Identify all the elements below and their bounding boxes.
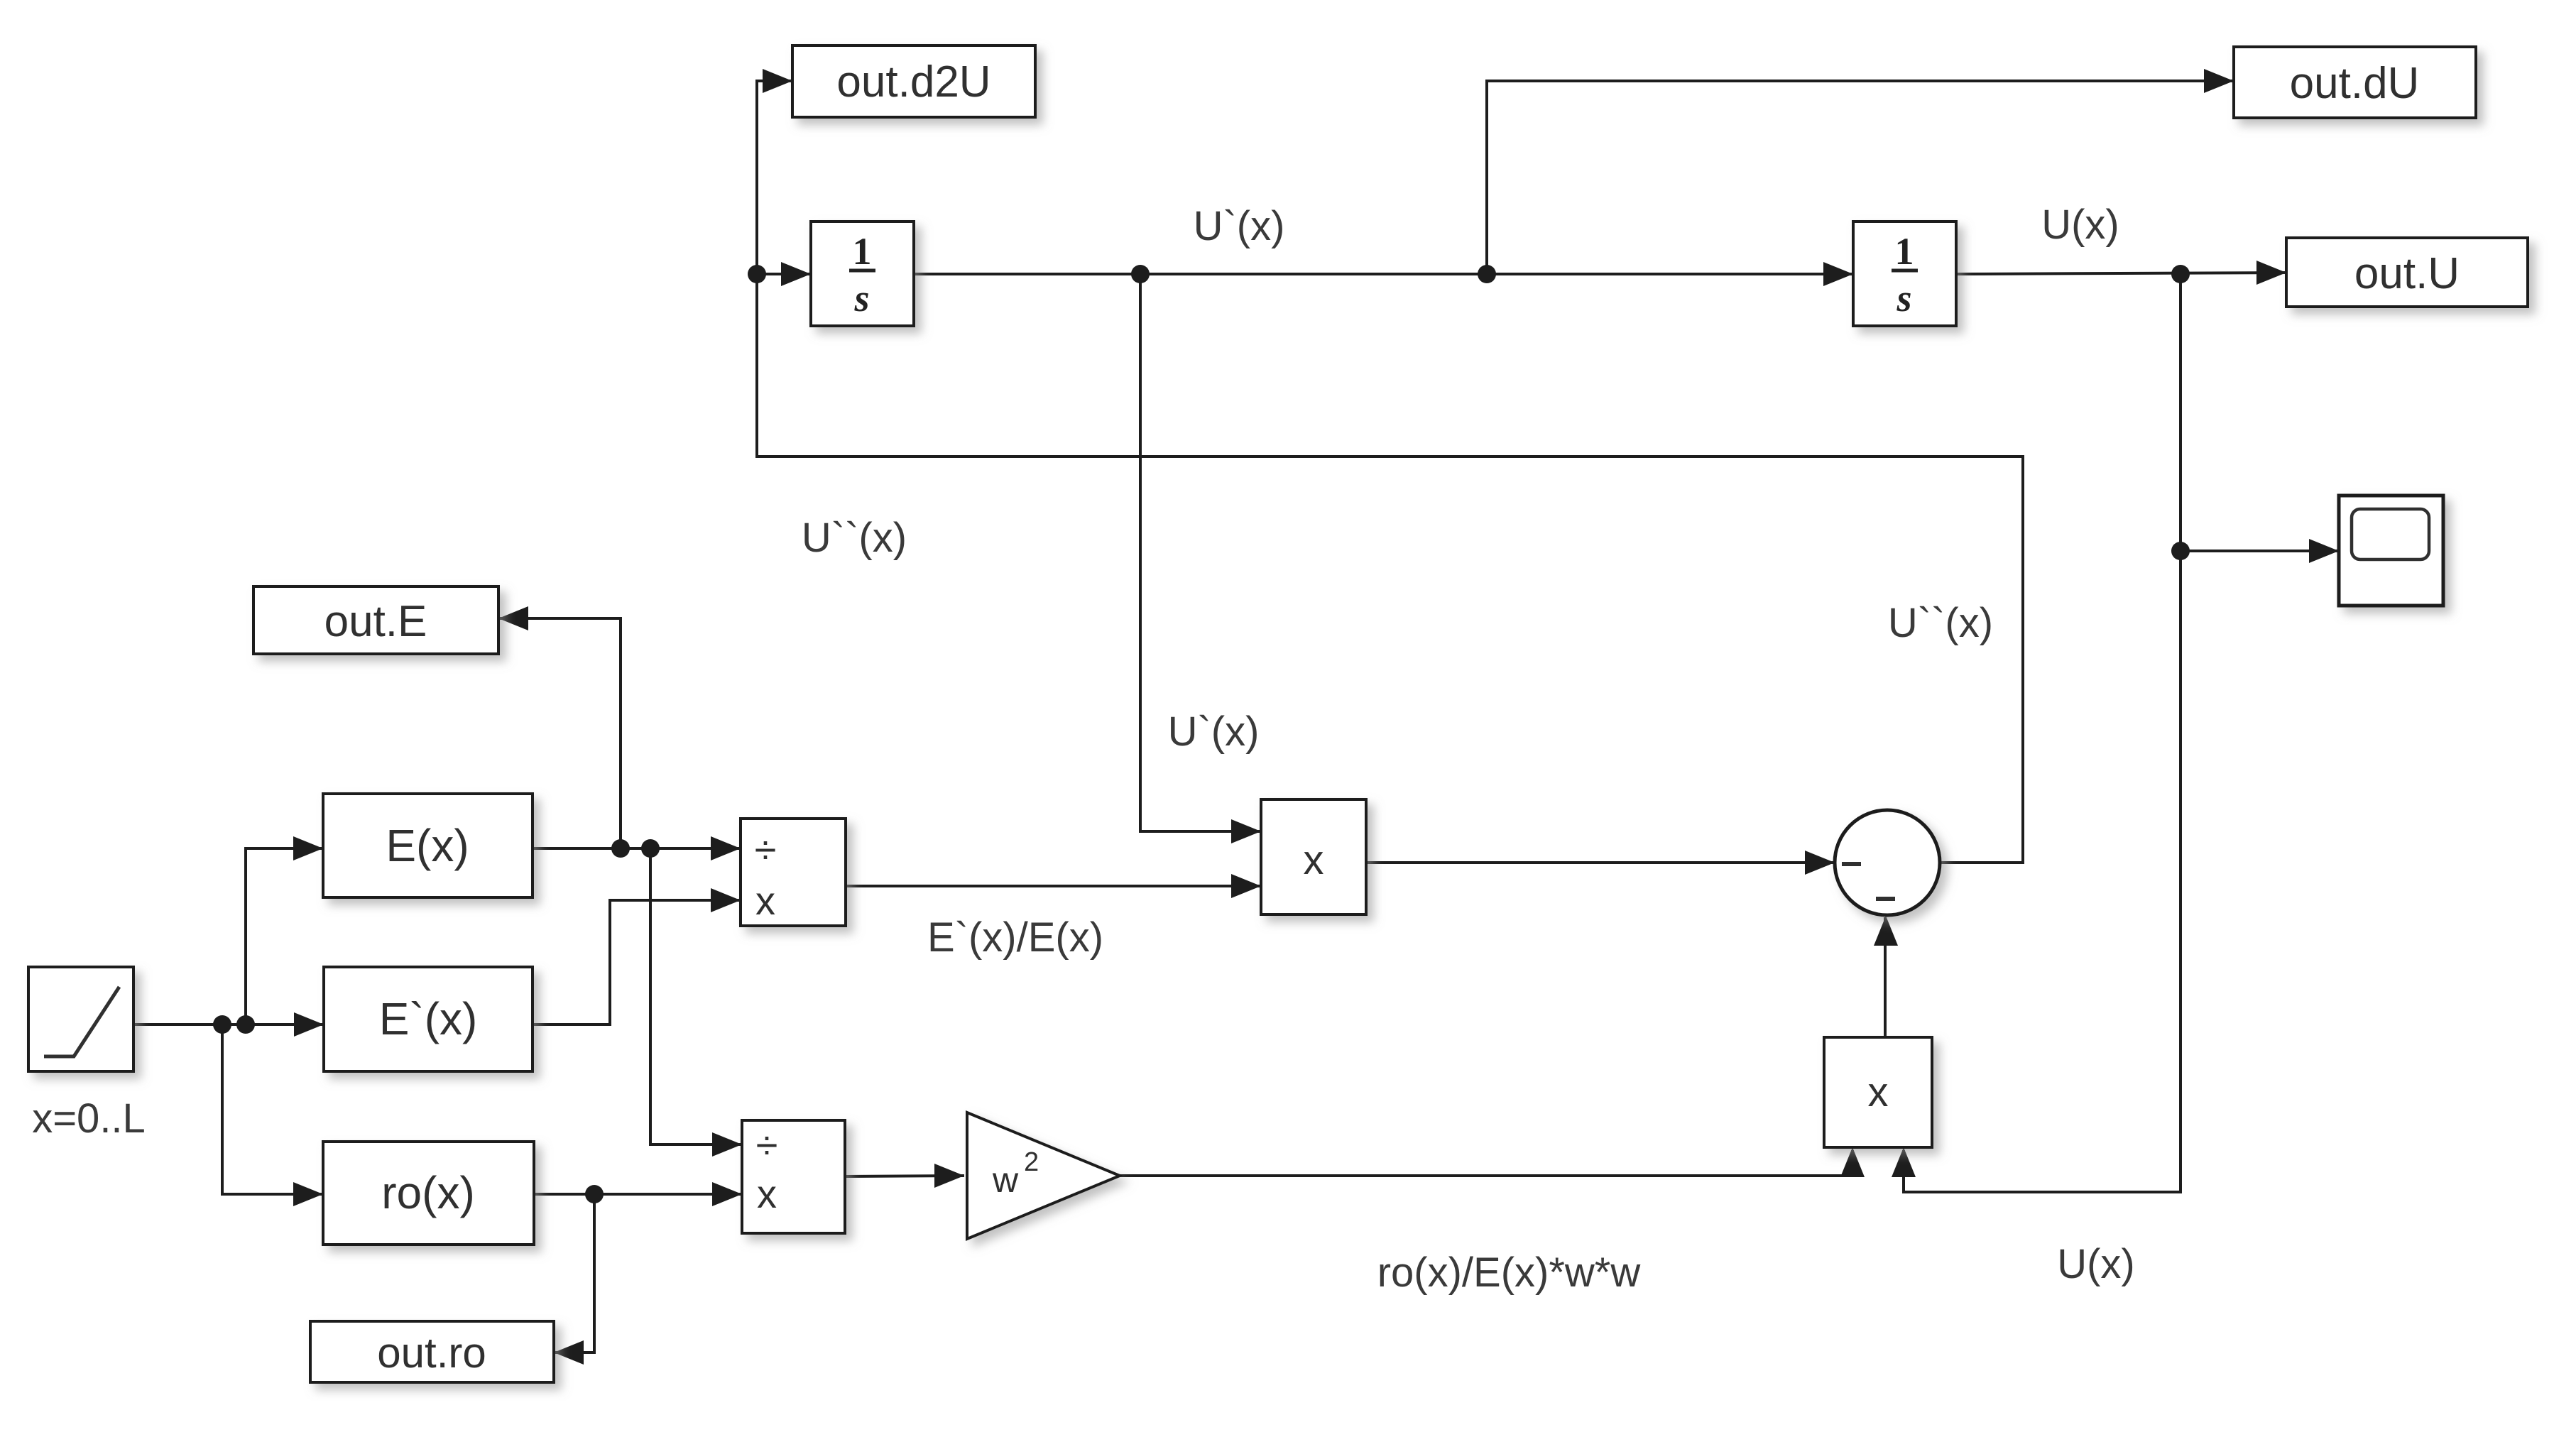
block out.U bbox=[2286, 238, 2528, 307]
arrow into E`(x) bbox=[294, 1012, 324, 1037]
wire Gain output ro(x)/E(x)*w*w to Product2 bbox=[1120, 1150, 1852, 1176]
wire ramp output to E`(x) bbox=[133, 1023, 324, 1026]
svg-text:U``(x): U``(x) bbox=[1888, 600, 1993, 646]
svg-text:w: w bbox=[992, 1160, 1019, 1200]
svg-text:s: s bbox=[853, 277, 869, 319]
sum block (minus minus) bbox=[1835, 810, 1940, 915]
wire Integrator2 output U(x) to out.U bbox=[1956, 273, 2286, 274]
wire Sum output U``(x) feedback loop bbox=[757, 81, 2023, 863]
wire branch to Scope bbox=[2181, 550, 2339, 552]
node junction integrator1 input bbox=[748, 265, 766, 283]
divide block Divide2 bbox=[742, 1120, 845, 1233]
wire branch down to out.ro bbox=[554, 1194, 594, 1352]
svg-text:x: x bbox=[1304, 837, 1324, 883]
svg-text:x: x bbox=[757, 1171, 777, 1216]
wire feedback into Integrator1 bbox=[757, 273, 811, 275]
svg-text:÷: ÷ bbox=[755, 827, 777, 872]
arrow into out.E bbox=[498, 606, 528, 630]
svg-text:out.d2U: out.d2U bbox=[836, 58, 990, 106]
block out.dU bbox=[2234, 47, 2476, 118]
arrow into Divide2 div port bbox=[712, 1132, 742, 1157]
block E`(x) bbox=[324, 967, 533, 1071]
wire U(x) branch down bbox=[1904, 274, 2181, 1192]
arrow into ro(x) bbox=[293, 1182, 323, 1206]
arrow into out.ro bbox=[554, 1340, 584, 1365]
node junction out.dU branch bbox=[1478, 265, 1496, 283]
block out.d2U bbox=[792, 45, 1035, 117]
wire Product2 output to Sum bottom port bbox=[1884, 917, 1887, 1037]
node junction ro(x) out bbox=[585, 1185, 604, 1203]
wire branch down to ro(x) bbox=[222, 1024, 323, 1194]
svg-text:1: 1 bbox=[853, 230, 872, 273]
svg-text:E`(x)/E(x): E`(x)/E(x) bbox=[927, 914, 1103, 961]
product block Product2 bbox=[1824, 1037, 1932, 1147]
wire branch up to E(x) bbox=[246, 848, 323, 1024]
arrow into out.U bbox=[2256, 261, 2286, 285]
arrow into Product2 left port bbox=[1840, 1147, 1865, 1177]
svg-text:U(x): U(x) bbox=[2041, 202, 2119, 248]
wire Integrator1 output U`(x) to Integrator2 bbox=[914, 273, 1853, 275]
node junction E(x) out 2 bbox=[641, 839, 660, 858]
wire E(x) output to Divide1 bbox=[533, 847, 741, 850]
wire U`(x) branch down to Product1 top port bbox=[1140, 274, 1261, 831]
svg-text:ro(x): ro(x) bbox=[381, 1167, 475, 1218]
svg-text:÷: ÷ bbox=[756, 1122, 778, 1167]
product block Product1 bbox=[1261, 799, 1366, 914]
svg-text:ro(x)/E(x)*w*w: ro(x)/E(x)*w*w bbox=[1377, 1250, 1642, 1296]
arrow into out.d2U bbox=[763, 69, 792, 93]
arrow into Scope bbox=[2309, 539, 2339, 563]
svg-text:x: x bbox=[1868, 1069, 1889, 1115]
svg-text:E(x): E(x) bbox=[386, 820, 469, 871]
svg-text:x: x bbox=[755, 878, 775, 923]
svg-text:U`(x): U`(x) bbox=[1194, 203, 1285, 249]
block ro(x) bbox=[323, 1142, 534, 1245]
arrow into out.dU bbox=[2204, 69, 2234, 93]
node junction scope branch bbox=[2171, 542, 2190, 560]
ramp source block bbox=[28, 967, 133, 1071]
arrow into Sum bottom port bbox=[1874, 916, 1898, 946]
arrow into Integrator2 bbox=[1823, 262, 1853, 286]
svg-text:2: 2 bbox=[1024, 1147, 1039, 1177]
wire E`(x) output to Divide1 x port bbox=[533, 900, 741, 1024]
arrow into E(x) bbox=[293, 836, 323, 860]
wire branch up to out.dU bbox=[1487, 81, 2234, 274]
svg-text:x=0..L: x=0..L bbox=[32, 1095, 146, 1142]
divide block Divide1 bbox=[741, 819, 846, 926]
integrator Integrator1 1/s bbox=[811, 222, 914, 326]
arrow into Integrator1 bbox=[781, 262, 811, 286]
node junction U(x) bbox=[2171, 265, 2190, 283]
arrow into Product1 upper port bbox=[1231, 819, 1261, 843]
arrow into Divide1 div port bbox=[711, 836, 741, 860]
node junction after ramp 2 bbox=[236, 1015, 255, 1034]
svg-text:out.U: out.U bbox=[2354, 249, 2460, 298]
wire branch down to Divide2 top port bbox=[650, 848, 742, 1144]
svg-text:out.E: out.E bbox=[324, 597, 427, 646]
arrow into Product1 lower port bbox=[1231, 874, 1261, 898]
arrow into Gain w2 bbox=[934, 1164, 964, 1188]
svg-text:U``(x): U``(x) bbox=[802, 515, 907, 561]
wire Product1 output to Sum bbox=[1366, 861, 1835, 864]
node junction E(x) out 1 bbox=[611, 839, 630, 858]
wire branch up to out.E bbox=[498, 618, 621, 848]
node junction after ramp 1 bbox=[213, 1015, 231, 1034]
svg-text:U`(x): U`(x) bbox=[1168, 709, 1260, 755]
node junction U`(x) bbox=[1131, 265, 1150, 283]
svg-text:E`(x): E`(x) bbox=[379, 993, 478, 1044]
svg-text:1: 1 bbox=[1895, 230, 1914, 273]
gain block w^2 bbox=[967, 1113, 1120, 1239]
svg-text:U(x): U(x) bbox=[2057, 1241, 2135, 1287]
svg-text:out.dU: out.dU bbox=[2290, 59, 2420, 108]
arrow into Divide1 x port bbox=[711, 888, 741, 912]
integrator Integrator2 1/s bbox=[1853, 222, 1956, 326]
svg-text:out.ro: out.ro bbox=[377, 1329, 486, 1377]
block E(x) bbox=[323, 794, 533, 897]
block out.E bbox=[253, 586, 498, 654]
block out.ro bbox=[310, 1321, 554, 1382]
wire Divide1 output E`(x)/E(x) to Product1 bbox=[846, 885, 1261, 887]
scope block bbox=[2339, 496, 2443, 606]
svg-text:s: s bbox=[1896, 277, 1911, 319]
arrow into Product2 right port bbox=[1892, 1147, 1916, 1177]
wire ro(x) output to Divide2 x port bbox=[534, 1193, 742, 1196]
arrow into Sum left port bbox=[1805, 851, 1835, 875]
arrow into Divide2 x port bbox=[712, 1182, 742, 1206]
wire Divide2 output to Gain w2 bbox=[845, 1176, 964, 1176]
